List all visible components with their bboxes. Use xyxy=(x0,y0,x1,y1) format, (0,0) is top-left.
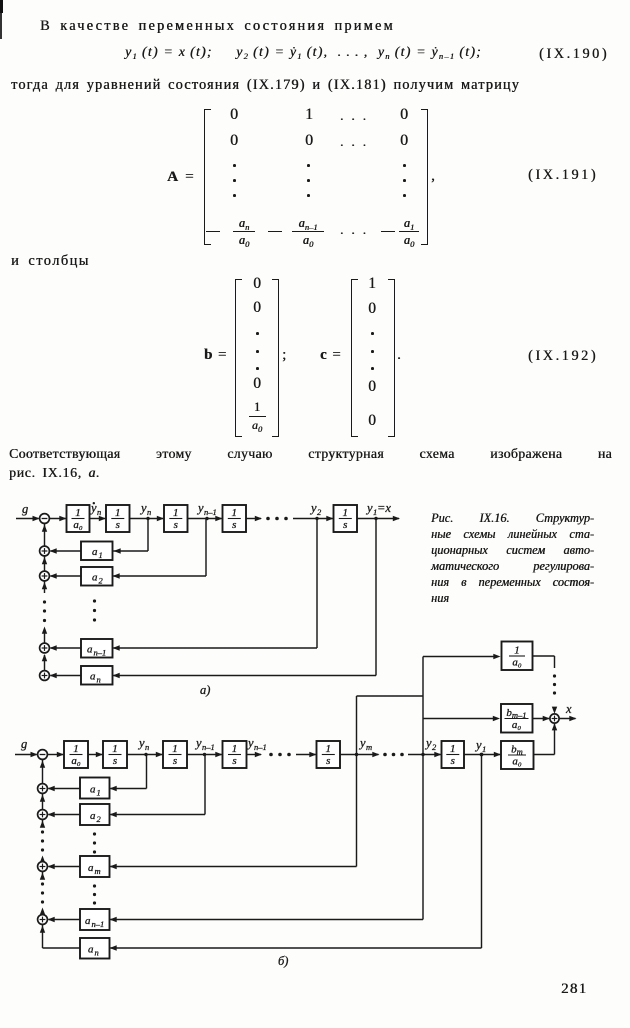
svg-text:n: n xyxy=(95,948,99,958)
svg-text:s: s xyxy=(116,519,120,531)
summer S3a (+) xyxy=(40,643,50,653)
wire tap y_n-1 to a2 (b) xyxy=(204,755,206,815)
period xyxy=(397,347,401,364)
svg-text:g: g xyxy=(22,502,28,516)
block column dots 2 (b) xyxy=(93,884,96,887)
page number xyxy=(561,981,587,998)
block 1/a0 (diagram a) xyxy=(67,505,90,532)
equation IX.190 xyxy=(125,44,482,60)
vector b right bracket xyxy=(272,279,279,437)
summer T2 (+) xyxy=(38,810,48,820)
matrix dots row1 xyxy=(340,108,374,124)
svg-text:a: a xyxy=(90,784,96,796)
svg-text:n: n xyxy=(145,742,149,752)
block 1/a0 (diagram b) xyxy=(64,741,88,768)
svg-text:y: y xyxy=(246,736,254,750)
svg-text:2: 2 xyxy=(317,507,322,517)
svg-text:s: s xyxy=(326,755,330,767)
feedback block am (b) xyxy=(80,856,110,877)
vector b entry xyxy=(253,275,261,293)
svg-text:a: a xyxy=(92,546,98,558)
svg-text:a: a xyxy=(85,915,91,927)
chain dots 2 (b) xyxy=(41,882,44,885)
block 1/s no.3 (diagram b) xyxy=(223,741,247,768)
matrix entry 0 xyxy=(400,106,408,124)
block 1/s no.3 (diagram a) xyxy=(223,505,247,532)
eq number 191 xyxy=(528,167,598,184)
block bm-1/a0 xyxy=(501,704,533,733)
wire S2a to S1a xyxy=(44,556,46,571)
svg-text:n–1: n–1 xyxy=(204,507,217,517)
svg-text:s: s xyxy=(174,519,178,531)
matrix entry 1 xyxy=(305,106,313,124)
svg-text:1: 1 xyxy=(514,645,520,657)
svg-text:y: y xyxy=(194,736,202,750)
svg-text:a₀: a₀ xyxy=(512,719,522,731)
svg-text:a: a xyxy=(88,862,94,874)
dotted line down to summer xyxy=(553,674,556,677)
svg-text:y: y xyxy=(474,738,482,752)
tap y2 up to 1/a0 feed xyxy=(422,657,424,755)
semicolon xyxy=(282,347,286,364)
branch to bm-1/a0 xyxy=(423,718,498,720)
svg-text:a₀: a₀ xyxy=(512,756,522,768)
vector c dots xyxy=(371,332,374,335)
block 1/s no.2 (diagram a) xyxy=(164,505,188,532)
svg-text:s: s xyxy=(173,755,177,767)
arrow above T4 xyxy=(40,908,45,915)
output summer S5 (+) xyxy=(550,714,559,723)
summer S0a (minus) xyxy=(40,514,50,524)
wire with node y_m (b) xyxy=(340,754,379,756)
svg-text:a: a xyxy=(88,944,94,956)
comma after matrix xyxy=(431,168,435,185)
matrix fraction -an/a0 xyxy=(206,231,220,232)
wire below S2a xyxy=(44,581,46,593)
vector b entry xyxy=(253,299,261,317)
svg-text:1: 1 xyxy=(115,507,121,519)
ellipsis on main line (diagram a) xyxy=(266,517,270,521)
wire with node y_n (b) xyxy=(127,754,162,756)
feedback block an-1 (diagram a) xyxy=(81,639,113,658)
svg-text:n–1: n–1 xyxy=(92,919,105,929)
svg-text:s: s xyxy=(113,755,117,767)
svg-text:1: 1 xyxy=(232,743,238,755)
paragraph line 1 xyxy=(40,18,395,35)
svg-text:m: m xyxy=(95,866,101,876)
left chain vertical wire (diagram a) xyxy=(44,523,46,546)
wire to ellipsis with label y_n-2 xyxy=(247,754,262,756)
svg-text:a₀: a₀ xyxy=(71,755,81,767)
feedback block a2 (b) xyxy=(80,804,110,825)
wire input to summer (b) xyxy=(15,754,37,756)
wire 1/s2 to 1/s3 with node y_n-1 xyxy=(188,518,222,520)
wire a2 to T2 xyxy=(49,814,81,816)
svg-text:2: 2 xyxy=(432,742,437,752)
wire ellipsis to node y2 and 1/s5 (b) xyxy=(408,754,441,756)
svg-text:a: a xyxy=(90,671,96,683)
wire ellipsis to 1/s4 (b) xyxy=(296,754,316,756)
matrix A left bracket xyxy=(204,109,211,245)
summer S0b (minus) xyxy=(38,750,48,760)
svg-text:1: 1 xyxy=(450,743,456,755)
wire tap y_m to am (b) xyxy=(356,755,358,867)
matrix entry 0 xyxy=(400,132,408,150)
matrix entry 0 xyxy=(230,106,238,124)
output wire y1=x xyxy=(357,518,399,520)
wire an to S4a xyxy=(51,675,82,677)
wire 1/a0 to 1/s1 (b) xyxy=(88,754,102,756)
svg-text:y: y xyxy=(309,501,317,515)
wire 1/s1 to 1/s2 with node y_n xyxy=(130,518,164,520)
svg-text:y: y xyxy=(196,501,204,515)
svg-text:y: y xyxy=(137,736,145,750)
svg-text:n–1: n–1 xyxy=(202,742,215,752)
wire ellipsis to 1/s4 with node y2 xyxy=(293,518,333,520)
svg-text:s: s xyxy=(451,755,455,767)
svg-text:s: s xyxy=(232,755,236,767)
svg-text:a₀: a₀ xyxy=(512,657,522,669)
vector c right bracket xyxy=(388,279,395,437)
vector b left bracket xyxy=(235,279,242,437)
svg-text:y: y xyxy=(358,736,366,750)
vector c entry xyxy=(368,300,376,318)
svg-text:g: g xyxy=(21,737,27,751)
block 1/s no.5 (diagram b) xyxy=(442,741,465,768)
matrix A right bracket xyxy=(421,109,428,245)
arrow above T3 xyxy=(40,856,45,863)
block 1/s no.1 (diagram b) xyxy=(103,741,127,768)
wire an left to chain xyxy=(43,947,81,949)
block 1/s no.4 (diagram b) xyxy=(317,741,341,768)
svg-text:y: y xyxy=(365,501,373,515)
block 1/s no.2 (diagram b) xyxy=(163,741,187,768)
matrix vertical dots xyxy=(403,164,406,167)
summer S2a (+) xyxy=(40,571,50,581)
wire tap y1 to an (b) xyxy=(481,755,483,949)
wire tap y_n to a1 xyxy=(147,519,149,552)
matrix fraction -an-1/a0 xyxy=(268,231,282,232)
svg-text:y: y xyxy=(424,736,432,750)
wire a1 to T1 xyxy=(49,788,81,790)
svg-text:1: 1 xyxy=(73,743,79,755)
block column dots (diagram a) xyxy=(93,599,96,602)
paragraph line 2 xyxy=(9,465,100,481)
ellipsis 2 on main line (b) xyxy=(383,753,387,757)
wire am to T3 xyxy=(49,866,81,868)
tap y_m up xyxy=(356,696,358,755)
vector b fraction 1/a0 xyxy=(249,416,266,417)
feedback block a1 (diagram a) xyxy=(81,542,113,561)
wire bm/a0 up to summer xyxy=(534,754,555,756)
page-edge mark xyxy=(0,0,3,13)
wire with up arrow above S3a xyxy=(42,627,47,634)
block 1/a0 top right xyxy=(502,642,533,671)
feedback block an (b) xyxy=(80,938,110,959)
feedback block a1 (b) xyxy=(80,778,110,799)
matrix vertical dots xyxy=(307,164,310,167)
svg-text:1: 1 xyxy=(112,743,118,755)
wire 1/s3 to ellipsis xyxy=(246,518,261,520)
svg-text:x: x xyxy=(565,702,572,716)
svg-text:a: a xyxy=(87,644,93,656)
feedback block a2 (diagram a) xyxy=(81,567,113,586)
left chain vertical (b) xyxy=(42,759,44,783)
wire with node y_n-1 (b) xyxy=(187,754,222,756)
matrix fraction -a1/a0 xyxy=(381,231,395,232)
svg-text:1: 1 xyxy=(173,507,179,519)
ellipsis 1 on main line (b) xyxy=(269,753,273,757)
wire an-1 to T4 xyxy=(49,919,81,921)
wire S4a to S3a xyxy=(42,654,47,661)
matrix dots row2 xyxy=(340,134,374,150)
vector c entry xyxy=(368,412,376,430)
feedback block an (diagram a) xyxy=(81,666,113,685)
figure caption xyxy=(431,510,594,526)
chain dots 1 (b) xyxy=(41,830,44,833)
wire tap y2 to an-1 xyxy=(316,519,318,649)
svg-text:m: m xyxy=(366,742,372,752)
svg-text:=x: =x xyxy=(377,501,391,515)
wire a2 to S2a xyxy=(51,575,82,577)
paragraph line 2 xyxy=(11,77,520,94)
summer T4 (+) xyxy=(38,915,48,925)
svg-text:б): б) xyxy=(278,954,288,968)
summer T1 (+) xyxy=(38,784,48,794)
block bm/a0 xyxy=(501,741,534,769)
wire with node y1 into bm/a0 xyxy=(464,754,500,756)
svg-text:1: 1 xyxy=(75,507,81,519)
svg-text:а): а) xyxy=(200,683,210,697)
svg-text:a: a xyxy=(92,572,98,584)
chain dots (diagram a) xyxy=(43,600,46,603)
wire tap y_n-1 to a2 xyxy=(205,519,207,577)
text "и столбцы" xyxy=(11,253,90,270)
svg-text:n: n xyxy=(97,507,101,517)
output wire x xyxy=(559,718,575,720)
svg-text:1: 1 xyxy=(326,743,332,755)
wire tap y2 to an-1 (b) xyxy=(422,755,424,920)
eq number 192 xyxy=(528,348,598,365)
feedback block an-1 (b) xyxy=(80,909,110,930)
vector b entry xyxy=(253,375,261,393)
matrix vertical dots xyxy=(233,164,236,167)
svg-text:1: 1 xyxy=(99,550,103,560)
summer S1a (+) xyxy=(40,546,50,556)
eq number 190 xyxy=(539,46,609,63)
summer S4a (+) xyxy=(40,671,50,681)
matrix bottom dots xyxy=(340,222,374,238)
svg-text:a: a xyxy=(90,810,96,822)
svg-text:1: 1 xyxy=(482,744,486,754)
svg-text:s: s xyxy=(232,519,236,531)
svg-text:y: y xyxy=(139,501,147,515)
matrix A label xyxy=(167,168,195,186)
matrix entry 0 xyxy=(305,132,313,150)
wire a1 to S1a xyxy=(51,550,82,552)
block 1/s no.1 (diagram a) xyxy=(106,505,130,532)
output of 1/a0 top right xyxy=(533,655,555,657)
block column dots 1 (b) xyxy=(93,832,96,835)
vector b label xyxy=(204,347,227,364)
svg-text:n: n xyxy=(147,507,151,517)
wire bm-1/a0 to summer xyxy=(533,718,549,720)
wire T2 to T1 xyxy=(42,794,44,810)
svg-text:n–1: n–1 xyxy=(94,648,107,658)
svg-text:1: 1 xyxy=(172,743,178,755)
wire tap y1 to an xyxy=(375,519,377,676)
vector c entry xyxy=(368,275,376,293)
svg-text:n: n xyxy=(97,675,101,685)
wire 1/a0 to 1/s xyxy=(90,518,106,520)
wire tap y_n to a1 (b) xyxy=(146,755,148,789)
wire summer to block 1/a0 xyxy=(49,518,65,520)
summer T3 (+) xyxy=(38,862,48,872)
wire an row up to T4 xyxy=(40,926,45,933)
svg-text:n–1: n–1 xyxy=(254,742,267,752)
vector c left bracket xyxy=(351,279,358,437)
vector c entry xyxy=(368,378,376,396)
vector c label xyxy=(320,347,342,364)
svg-text:s: s xyxy=(343,519,347,531)
svg-text:1: 1 xyxy=(97,788,101,798)
svg-text:a₀: a₀ xyxy=(73,519,83,531)
wire input to summer xyxy=(16,518,39,520)
block 1/s no.4 (diagram a) xyxy=(334,505,358,532)
paragraph line justified xyxy=(9,446,612,462)
svg-text:1: 1 xyxy=(232,507,238,519)
vector b dots xyxy=(256,332,259,335)
wire summer to 1/a0 (b) xyxy=(47,754,63,756)
wire an-1 to S3a xyxy=(51,647,82,649)
svg-text:1: 1 xyxy=(343,507,349,519)
matrix entry 0 xyxy=(230,132,238,150)
